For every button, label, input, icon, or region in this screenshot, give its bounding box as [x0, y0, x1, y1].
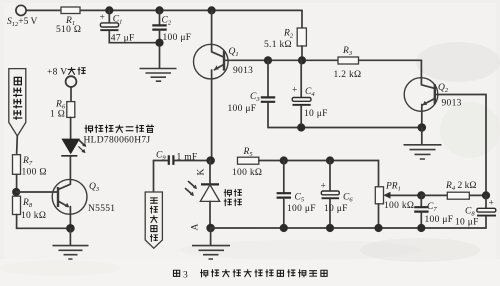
svg-text:10 μF: 10 μF [455, 218, 479, 228]
transistor Q1 9013 [194, 44, 229, 79]
capacitor C7 100uF [420, 195, 422, 207]
banner: to controller (jie kong zhi qi) rotated text [9, 69, 26, 136]
terminal +8V transmit [66, 76, 77, 87]
wire: bottom rail [211, 227, 486, 229]
resistor R7 100 ohm [13, 155, 21, 175]
node: rail dot under C7 [417, 224, 425, 232]
svg-text:100 μF: 100 μF [425, 215, 454, 225]
svg-text:N5551: N5551 [88, 204, 115, 214]
svg-text:1.2 kΩ: 1.2 kΩ [334, 70, 362, 80]
ground under Q3 [69, 228, 71, 245]
svg-text:+8 V: +8 V [47, 68, 67, 78]
resistor R4 2k [421, 194, 486, 196]
wire: Q2 base to right edge then down [435, 95, 486, 195]
svg-text:5.1 kΩ: 5.1 kΩ [264, 40, 292, 50]
label: hong wai / jie shou [224, 189, 231, 196]
node: rail dot under C6 [326, 224, 334, 232]
capacitor C5 100uF [283, 161, 285, 194]
capacitor C4 10uF electrolytic [300, 60, 302, 97]
wire: +5V top rail [26, 9, 302, 11]
svg-text:100 μF: 100 μF [163, 33, 192, 43]
svg-text:9013: 9013 [442, 99, 462, 109]
resistor R1 510 ohm [61, 7, 80, 14]
wire: signal line to pot [259, 161, 379, 187]
node: dot Q3 emitter [66, 224, 75, 233]
svg-text:+: + [100, 13, 106, 23]
capacitor C3 100uF [267, 60, 269, 97]
terminal S12 +5V [16, 5, 26, 15]
laser diode HLD780060H7J [61, 139, 80, 155]
node: rail dot under PR1 [374, 224, 382, 232]
svg-text:100 μF: 100 μF [228, 104, 257, 114]
caption [173, 270, 179, 276]
svg-text:R4 2 kΩ: R4 2 kΩ [445, 181, 476, 192]
node: dot Q2 emitter junction [418, 123, 427, 132]
wire: base to Q3 [16, 191, 58, 193]
label: hong wai ji guang er ji guan [85, 125, 93, 132]
node: rail dot under C5 [280, 224, 288, 232]
arrows: emitted light [79, 140, 84, 144]
potentiometer PR1 100k [375, 187, 383, 204]
node: dot IR diode bottom on rail [206, 224, 215, 233]
svg-text:3: 3 [183, 271, 188, 281]
resistor R6 1 ohm [70, 87, 72, 102]
svg-text:10 μF: 10 μF [324, 204, 348, 214]
node: dot C9/Q1 emitter/IR diode [206, 156, 215, 165]
node: dot wiper/C7/R4 [417, 191, 425, 199]
capacitor C1 47uF electrolytic [108, 10, 110, 22]
svg-text:100 μF: 100 μF [287, 204, 316, 214]
svg-text:K: K [197, 168, 207, 175]
node: dot base divider [12, 188, 20, 196]
node: dot R4 right / C8 top [482, 191, 490, 199]
capacitor C2 100uF [159, 10, 161, 25]
node: dot C6 top [326, 156, 334, 164]
transistor Q3 N5551 [52, 179, 87, 214]
svg-text:47 μF: 47 μF [111, 33, 135, 43]
arrows: incoming light [189, 182, 196, 188]
svg-text:9013: 9013 [233, 66, 253, 76]
resistor R8 10k [13, 196, 21, 214]
wire: Q1 base line to R2/R3 [224, 59, 421, 61]
resistor R3 1.2k [338, 57, 359, 64]
svg-text:100 kΩ: 100 kΩ [232, 168, 262, 178]
ground under IR diode [210, 228, 212, 245]
node: dot C5 top [280, 156, 288, 164]
label K cathode [197, 168, 207, 175]
resistor R2 5.1k vertical [301, 10, 303, 28]
wire: down to amp banner [153, 161, 155, 193]
node: rail dot at C1 [105, 6, 113, 14]
wire: banner to R7 [16, 136, 19, 155]
svg-text:S12+5 V: S12+5 V [7, 17, 38, 28]
svg-text:100 kΩ: 100 kΩ [384, 201, 414, 211]
svg-text:+: + [489, 199, 495, 209]
svg-text:HLD780060H7J: HLD780060H7J [84, 136, 151, 146]
capacitor C8 10uF electrolytic [485, 195, 487, 208]
node: dot joining C1/C2 bottoms [155, 39, 163, 47]
node: rail dot above Q1 [208, 6, 216, 14]
svg-text:510 Ω: 510 Ω [56, 25, 81, 35]
transistor Q2 9013 [404, 78, 438, 112]
svg-text:10 μF: 10 μF [304, 109, 328, 119]
svg-text:1 Ω: 1 Ω [50, 110, 65, 120]
label A anode [191, 223, 201, 230]
resistor R5 100k [238, 157, 259, 164]
capacitor C6 10uF electrolytic [329, 161, 331, 192]
node: dot C3 top [264, 56, 272, 64]
banner: to amplifier circuit (qu fang da dian lu) [145, 192, 162, 248]
svg-text:1 mF: 1 mF [177, 153, 198, 163]
svg-text:+: + [292, 86, 298, 96]
svg-text:+: + [321, 182, 327, 192]
svg-text:100 Ω: 100 Ω [22, 168, 47, 178]
node: dot C4 bottom [297, 123, 305, 131]
svg-text:10 kΩ: 10 kΩ [21, 211, 46, 221]
node: rail dot at C2 [155, 6, 163, 14]
ground under Q2 [421, 128, 423, 145]
svg-text:A: A [191, 223, 201, 230]
capacitor C9 1mF coupling [154, 160, 211, 162]
photodiode IR receiver [209, 161, 211, 185]
node: dot R2 bottom / C4 top [298, 56, 306, 64]
ground under C2 [140, 69, 177, 82]
